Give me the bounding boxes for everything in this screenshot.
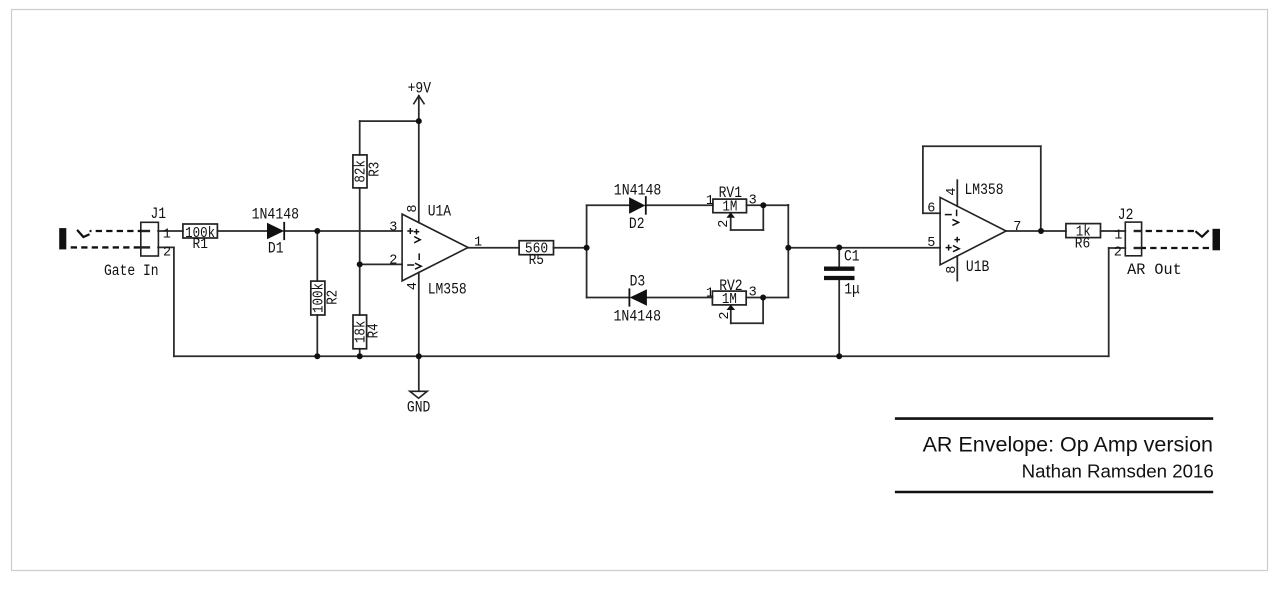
svg-text:AR Out: AR Out [1127,261,1182,279]
wire J1 pin1 to R1 [158,230,183,232]
wire D1 to U1A pin3 [284,230,402,232]
wire RV1 wiper loop up [762,205,764,230]
wire ground rail [174,355,1109,357]
svg-text:8: 8 [406,205,421,213]
svg-text:4: 4 [945,188,960,196]
resistor R4 [352,315,382,349]
wire U1B output to R6 [1006,230,1066,232]
wire J1 pin2 down to rail [173,247,175,356]
power +9V [408,79,432,104]
junction +9V branch [416,118,422,124]
wire D3 anode to RV2 pin1 [647,297,712,299]
junction C1 top [836,245,842,251]
svg-text:U1B: U1B [966,258,989,276]
wire RV1 wiper loop bottom [731,229,764,231]
svg-text:3: 3 [749,286,757,301]
svg-text:J1: J1 [151,205,167,223]
svg-text:1: 1 [706,194,714,209]
svg-text:D2: D2 [629,215,645,233]
svg-text:1N4148: 1N4148 [614,308,662,326]
junction R4 rail [357,353,363,359]
svg-text:4: 4 [406,282,421,290]
wire RV1 pin3 to rejoin [747,204,789,206]
wire U1B pin6 [923,212,940,214]
svg-text:LM358: LM358 [965,181,1004,199]
svg-text:AR Envelope: Op Amp version: AR Envelope: Op Amp version [923,432,1213,456]
wire U1A pin4 down to GND [418,273,420,391]
junction node after D1 [314,228,320,234]
potentiometer RV1 [706,184,757,228]
resistor R5 [519,240,553,269]
svg-text:+9V: +9V [408,79,432,97]
svg-text:1N4148: 1N4148 [252,206,300,224]
diode D3 [614,273,662,326]
wire +9V branch horizontal [360,120,419,122]
svg-text:Gate In: Gate In [104,262,159,280]
wire node D to U1B pin5 [788,247,940,249]
junction R2 rail [314,353,320,359]
resistor R1 [183,224,218,253]
resistor R6 [1066,223,1101,252]
svg-text:5: 5 [927,236,935,251]
potentiometer RV2 [706,277,757,320]
svg-text:3: 3 [749,193,757,208]
svg-text:3: 3 [389,220,397,235]
junction U1B output feedback [1038,228,1044,234]
wire RV2 wiper loop up [762,298,764,324]
junction RV2 wiper tie [760,295,766,301]
svg-text:R1: R1 [193,236,208,253]
wire U1B feedback left [922,146,924,213]
wire node A down to R2 [316,231,318,281]
svg-text:2: 2 [1114,245,1122,260]
svg-text:2: 2 [389,253,397,268]
op-amp U1B [927,181,1021,276]
wire R5 to node C [554,247,587,249]
svg-text:1μ: 1μ [844,281,860,299]
svg-text:1N4148: 1N4148 [614,181,662,199]
connector J2 [1114,206,1182,279]
junction C1 rail [836,353,842,359]
wire C1 top lead [838,248,840,267]
junction node B pin2 [357,261,363,267]
svg-text:1: 1 [1114,229,1122,244]
wire rejoin vertical [787,205,789,298]
junction RV1 wiper tie [760,202,766,208]
wire RV1 wiper [730,217,732,231]
wire U1B feedback right down [1040,146,1042,231]
wire RV2 pin3 to rejoin [746,297,788,299]
svg-text:R4: R4 [366,323,383,338]
wire C1 bottom lead [838,280,840,356]
svg-text:U1A: U1A [428,203,452,221]
svg-text:6: 6 [927,202,935,217]
wire R2 to rail [316,315,318,356]
wire J1 pin2 [158,246,174,248]
svg-text:2: 2 [163,246,171,261]
wire branch down to R3 [359,121,361,155]
wire RV2 wiper loop bottom [731,322,763,324]
wire D2 cathode to RV1 pin1 [646,204,713,206]
wire U1B pin4 stub [956,180,958,206]
jack plug Gate In [59,228,141,249]
junction GND rail [416,353,422,359]
diode D1 [252,206,300,258]
svg-text:R5: R5 [529,252,544,269]
svg-text:7: 7 [1013,220,1021,235]
svg-text:2: 2 [718,312,733,320]
wire R6 to J2 pin1 [1101,230,1126,232]
svg-text:C1: C1 [844,247,860,265]
title block [895,419,1214,492]
wire node C branch vertical [586,205,588,297]
junction node C [584,245,590,251]
op-amp U1A [389,203,482,299]
svg-text:2: 2 [717,220,732,228]
wire U1A output to R5 [468,247,519,249]
svg-text:D1: D1 [268,239,284,257]
wire U1B pin8 stub [956,256,958,281]
svg-text:D3: D3 [630,273,646,291]
wire RV2 wiper [730,309,732,324]
svg-text:Nathan Ramsden 2016: Nathan Ramsden 2016 [1022,461,1214,482]
svg-text:J2: J2 [1118,206,1134,224]
resistor R2 [311,281,342,315]
ground [407,391,430,416]
wire rail up to J2 pin2 [1108,248,1110,356]
wire to J2 pin2 [1109,247,1126,249]
wire to D3 cathode [587,297,630,299]
wire +9V down to U1A pin8 [418,96,420,223]
svg-text:1: 1 [706,286,714,301]
svg-text:RV2: RV2 [719,277,742,295]
wire R4 to rail [359,349,361,357]
capacitor C1 [824,247,860,298]
wire R1 to D1 [217,230,267,232]
connector J1 [104,205,171,280]
junction node D rejoin [785,245,791,251]
jack plug AR Out [1142,229,1220,251]
svg-text:GND: GND [407,399,430,417]
svg-text:R2: R2 [324,290,341,305]
wire to D2 anode [587,204,630,206]
svg-text:R3: R3 [366,162,383,177]
wire U1B feedback top [923,145,1041,147]
svg-text:1: 1 [474,235,482,250]
svg-text:R6: R6 [1075,236,1090,253]
svg-text:1: 1 [163,228,171,243]
wire R3 to node B to R4 [359,188,361,315]
svg-text:LM358: LM358 [428,281,467,299]
svg-text:8: 8 [945,266,960,274]
svg-text:RV1: RV1 [719,184,742,202]
diode D2 [614,181,662,233]
wire node B to U1A pin2 [360,263,402,265]
resistor R3 [353,155,384,188]
